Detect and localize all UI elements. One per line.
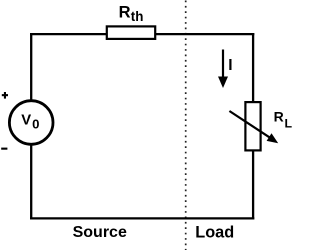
Rth label — [119, 4, 144, 25]
wire right — [252, 33, 254, 219]
dashed boundary line between source and load — [185, 1, 187, 250]
current arrow I — [218, 50, 228, 89]
resistor Rth box — [107, 26, 155, 39]
plus terminal — [2, 92, 8, 99]
svg-text:L: L — [285, 116, 293, 130]
svg-text:Load: Load — [195, 223, 234, 241]
svg-text:th: th — [131, 9, 144, 24]
wire top — [30, 33, 254, 35]
RL variable arrow — [229, 111, 278, 143]
svg-text:Source: Source — [73, 224, 127, 241]
wire bottom — [30, 217, 254, 219]
RL label — [274, 109, 293, 131]
svg-text:R: R — [274, 109, 284, 125]
current label I — [229, 59, 231, 70]
voltage source V0 circle — [9, 101, 53, 145]
resistor RL box (variable) — [245, 102, 260, 150]
svg-text:R: R — [119, 4, 131, 22]
minus terminal — [1, 148, 7, 150]
wire left top — [30, 33, 32, 103]
wire left bottom — [30, 143, 32, 219]
svg-text:0: 0 — [32, 117, 39, 132]
svg-text:V: V — [21, 112, 31, 128]
